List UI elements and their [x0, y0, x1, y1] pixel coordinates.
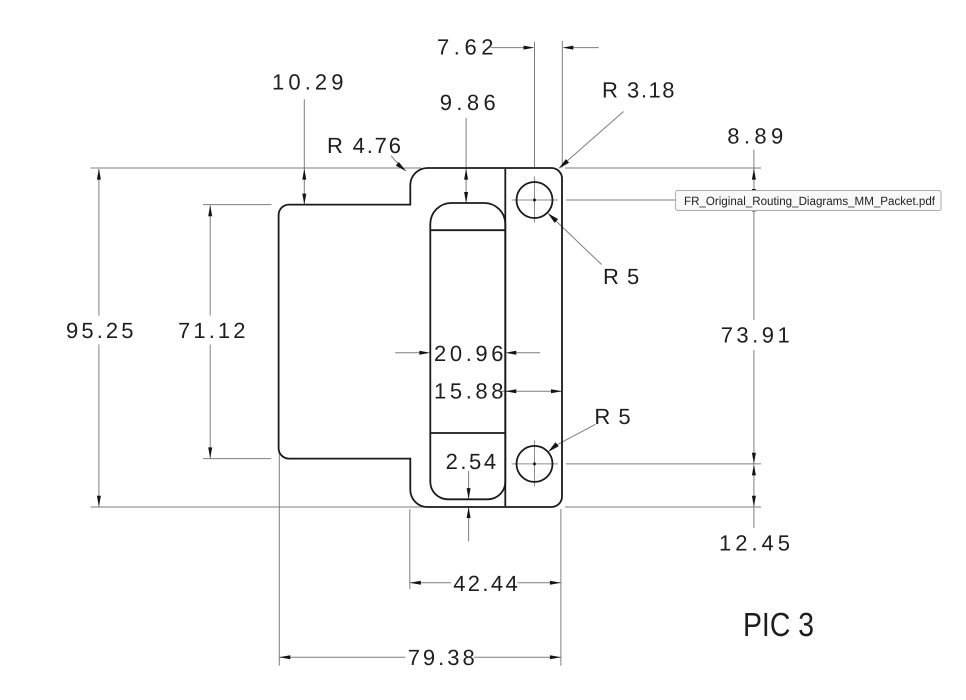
- extension line hole center x=534.5 vertical top: [534, 42, 536, 168]
- svg-text:71.12: 71.12: [178, 318, 248, 343]
- svg-text:42.44: 42.44: [453, 571, 520, 596]
- slot outline: [430, 203, 505, 499]
- extension line top hole center y=200: [566, 199, 761, 201]
- dimension 42.44 arrow right-pointing: [550, 581, 561, 585]
- svg-text:12.45: 12.45: [719, 531, 793, 556]
- dimension 73.91 lines: [753, 200, 755, 320]
- dimension 10.29 arrow up: [302, 169, 306, 180]
- dimension 79.38 arrow left-pointing: [279, 655, 290, 659]
- dimension 95.25 arrow up: [97, 169, 101, 180]
- dimension 9.86 arrow up: [464, 169, 468, 180]
- svg-text:15.88: 15.88: [434, 378, 506, 403]
- dimension 10.29 arrow down: [302, 194, 306, 205]
- svg-text:8.89: 8.89: [727, 123, 786, 148]
- tooltip box: [676, 191, 942, 211]
- svg-text:FR_Original_Routing_Diagrams_M: FR_Original_Routing_Diagrams_MM_Packet.p…: [684, 194, 936, 208]
- hole top R5: [517, 182, 553, 218]
- slot chord line bottom: [430, 432, 505, 434]
- dimension 73.91 arrow up (under tooltip): [752, 200, 756, 211]
- leader R 3.18 line: [566, 112, 624, 163]
- dimension 2.54 arrow up: [467, 507, 471, 518]
- svg-text:R 4.76: R 4.76: [327, 133, 404, 158]
- leader R 4.76 line: [391, 156, 399, 165]
- extension line x=560.9 below part: [560, 509, 562, 666]
- center mark top hole: [512, 199, 559, 201]
- dimension 79.38 lines: [279, 656, 405, 658]
- dimension 8.89 arrow down: [752, 189, 756, 200]
- dimension 20.96 arrow right-pointing: [419, 351, 430, 355]
- dimension 2.54 arrow down: [467, 488, 471, 499]
- dimension 95.25 lines: [98, 169, 100, 316]
- extension line left-section bottom y=458.6: [203, 458, 271, 460]
- leader R 5 top arrow: [548, 213, 559, 223]
- dimension 12.45 line: [753, 465, 755, 507]
- extension line x=279.3 below part: [278, 453, 280, 666]
- dimension 12.45 arrow down: [752, 496, 756, 507]
- svg-text:R 5: R 5: [594, 404, 631, 429]
- leader R 5 bottom arrow: [548, 442, 559, 452]
- leader R 4.76 arrow: [396, 162, 407, 172]
- leader R 3.18 arrow: [559, 159, 570, 169]
- extension line bottom edge y=507 left: [91, 506, 426, 508]
- svg-text:95.25: 95.25: [66, 318, 136, 343]
- svg-text:2.54: 2.54: [446, 449, 499, 474]
- center mark bottom hole: [512, 463, 559, 465]
- svg-text:R 5: R 5: [603, 264, 640, 289]
- extension line left-section top y=204.6: [203, 204, 272, 206]
- leader R 5 top line: [555, 220, 602, 265]
- svg-text:10.29: 10.29: [272, 70, 346, 95]
- hole bottom R5: [517, 446, 553, 482]
- dimension 71.12 lines: [209, 205, 211, 315]
- svg-text:7.62: 7.62: [437, 35, 496, 60]
- dimension 73.91 arrow down: [752, 453, 756, 464]
- svg-text:PIC 3: PIC 3: [743, 607, 814, 644]
- dimension 7.62 arrow right-pointing: [524, 46, 535, 50]
- dimension 20.96 arrow left-pointing: [505, 351, 516, 355]
- dimension 15.88 line: [501, 390, 563, 392]
- dimension 42.44 arrow left-pointing: [410, 581, 421, 585]
- extension line right edge x=562.3 vertical top: [561, 41, 563, 168]
- dimension 95.25 arrow down: [97, 496, 101, 507]
- dimension 9.86 arrow down: [464, 192, 468, 203]
- slot chord line top: [430, 229, 505, 231]
- svg-text:R 3.18: R 3.18: [602, 78, 677, 103]
- extension line top edge y=168 right: [565, 167, 761, 169]
- extension line x=409.8 below part: [409, 509, 411, 589]
- svg-text:79.38: 79.38: [408, 645, 478, 670]
- dimension 10.29 line: [303, 99, 305, 204]
- pocket divider line x=505.3: [504, 169, 506, 506]
- dimension 20.96 lines: [395, 352, 420, 354]
- dimension 79.38 arrow right-pointing: [550, 655, 561, 659]
- dimension 15.88 arrow left-pointing: [505, 389, 516, 393]
- dimension 71.12 arrow up: [208, 205, 212, 216]
- dimension 42.44 lines: [410, 582, 451, 584]
- dimension 71.12 arrow down: [208, 447, 212, 458]
- extension line top edge y=168 left: [91, 167, 422, 169]
- dimension 2.54 lines: [468, 471, 470, 499]
- svg-text:9.86: 9.86: [440, 90, 499, 115]
- svg-text:20.96: 20.96: [434, 341, 506, 366]
- dimension 8.89 arrow up: [752, 169, 756, 180]
- dimension 7.62 arrow left-pointing: [562, 46, 573, 50]
- dimension 7.62 lines: [491, 47, 525, 49]
- extension line bottom hole center y=463.9: [566, 463, 761, 465]
- dimension 9.86 line: [465, 118, 467, 203]
- svg-text:73.91: 73.91: [721, 323, 793, 348]
- part outline: [279, 168, 562, 507]
- dimension 12.45 arrow up: [752, 464, 756, 475]
- dimension 15.88 arrow right-pointing: [551, 389, 562, 393]
- leader R 5 bottom line: [556, 424, 596, 445]
- extension line bottom edge y=507 right: [565, 506, 761, 508]
- dimension 8.89 line: [753, 150, 755, 200]
